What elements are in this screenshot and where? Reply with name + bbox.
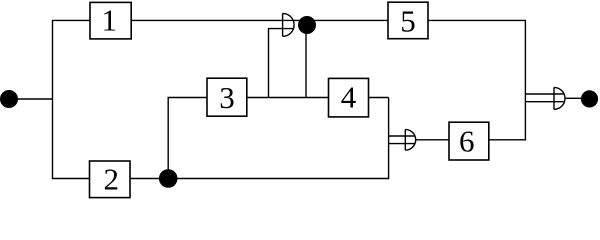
svg-text:4: 4 bbox=[341, 80, 357, 115]
svg-text:2: 2 bbox=[103, 161, 119, 196]
svg-text:5: 5 bbox=[400, 3, 416, 38]
svg-text:6: 6 bbox=[459, 123, 475, 158]
svg-text:3: 3 bbox=[219, 80, 235, 115]
svg-text:1: 1 bbox=[102, 3, 118, 38]
